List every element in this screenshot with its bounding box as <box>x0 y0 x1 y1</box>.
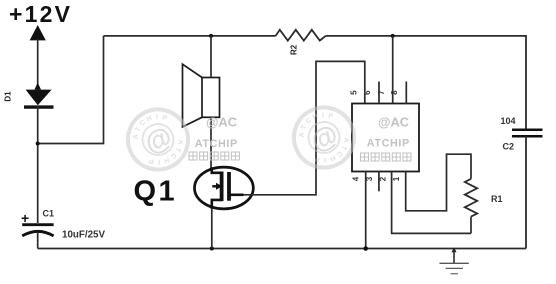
junction dot speaker/top rail <box>209 34 213 38</box>
capacitor C1 <box>22 225 53 249</box>
svg-text:Q1: Q1 <box>134 176 178 208</box>
pin 8 stub <box>405 82 407 104</box>
svg-text:A: A <box>342 137 350 143</box>
wire speaker to Q1 drain <box>210 117 212 168</box>
junction dot pin4/rail <box>363 246 368 251</box>
svg-text:104: 104 <box>501 116 516 126</box>
svg-text:C2: C2 <box>503 142 515 152</box>
svg-text:ATCHIP: ATCHIP <box>367 138 410 150</box>
transistor Q1 MOSFET <box>195 167 254 209</box>
wire R1 bottom <box>470 217 472 234</box>
capacitor C2 <box>512 130 543 137</box>
wire bottom rail <box>38 248 526 250</box>
svg-text:ATCHIP: ATCHIP <box>195 138 238 150</box>
wire right edge upper <box>525 35 527 130</box>
pin 1 wire to R1 top <box>406 154 471 211</box>
svg-text:I: I <box>324 156 326 163</box>
svg-text:+12V: +12V <box>9 1 72 27</box>
svg-text:I: I <box>156 114 158 121</box>
svg-text:C1: C1 <box>43 209 55 219</box>
svg-text:R2: R2 <box>289 44 298 55</box>
junction dot diode branch <box>36 142 40 146</box>
svg-text:7: 7 <box>377 90 386 95</box>
svg-text:@AC: @AC <box>206 115 237 130</box>
svg-text:D1: D1 <box>4 91 13 102</box>
svg-text:@AC: @AC <box>378 114 409 129</box>
svg-text:10uF/25V: 10uF/25V <box>62 230 105 241</box>
wire Q1 source to bottom rail <box>211 209 213 249</box>
svg-text:I: I <box>158 158 160 165</box>
resistor R1 <box>465 179 477 217</box>
wire branch to top rail <box>38 36 104 144</box>
junction dot Q1 source/bottom rail <box>210 247 214 251</box>
svg-text:2: 2 <box>379 176 388 181</box>
watermark stamp 1 <box>118 100 198 180</box>
svg-text:I: I <box>322 112 324 119</box>
junction dot pin7/top rail <box>391 34 395 38</box>
+12V arrow <box>30 25 46 90</box>
diode D1 <box>24 83 54 108</box>
svg-text:4: 4 <box>351 176 360 181</box>
svg-text:1: 1 <box>392 176 401 181</box>
wire Q1 gate to IC pin 5 <box>244 61 365 194</box>
pin 3 stub <box>378 172 380 192</box>
svg-text:A: A <box>176 139 184 145</box>
IC U1 <box>352 104 419 172</box>
pin 7 wire to top rail <box>392 36 394 104</box>
svg-text:5: 5 <box>350 90 359 95</box>
svg-text:6: 6 <box>363 90 372 95</box>
wire top rail left <box>104 35 276 37</box>
pin 2 wire to R1 bottom <box>392 172 471 234</box>
pin 6 stub <box>378 82 380 104</box>
svg-text:3: 3 <box>365 176 374 181</box>
wire right edge lower <box>525 136 527 248</box>
resistor R2 <box>276 30 326 41</box>
svg-text:+: + <box>21 210 29 226</box>
pin 4 wire to bottom rail <box>365 172 367 249</box>
wire top rail right <box>326 35 526 37</box>
svg-text:A: A <box>132 134 140 140</box>
speaker LS1 <box>183 64 220 127</box>
ground <box>440 247 469 273</box>
svg-text:R1: R1 <box>491 194 503 204</box>
watermark CJK block 2 <box>361 153 411 161</box>
watermark text block 2 <box>367 114 410 149</box>
wire top rail to speaker <box>210 36 212 78</box>
watermark text block 1 <box>195 115 238 151</box>
watermark CJK block 1 <box>189 152 239 160</box>
watermark stamp 2 <box>284 98 364 178</box>
svg-text:8: 8 <box>390 90 399 95</box>
wire diode to C1 <box>37 106 39 223</box>
svg-text:A: A <box>298 132 306 138</box>
